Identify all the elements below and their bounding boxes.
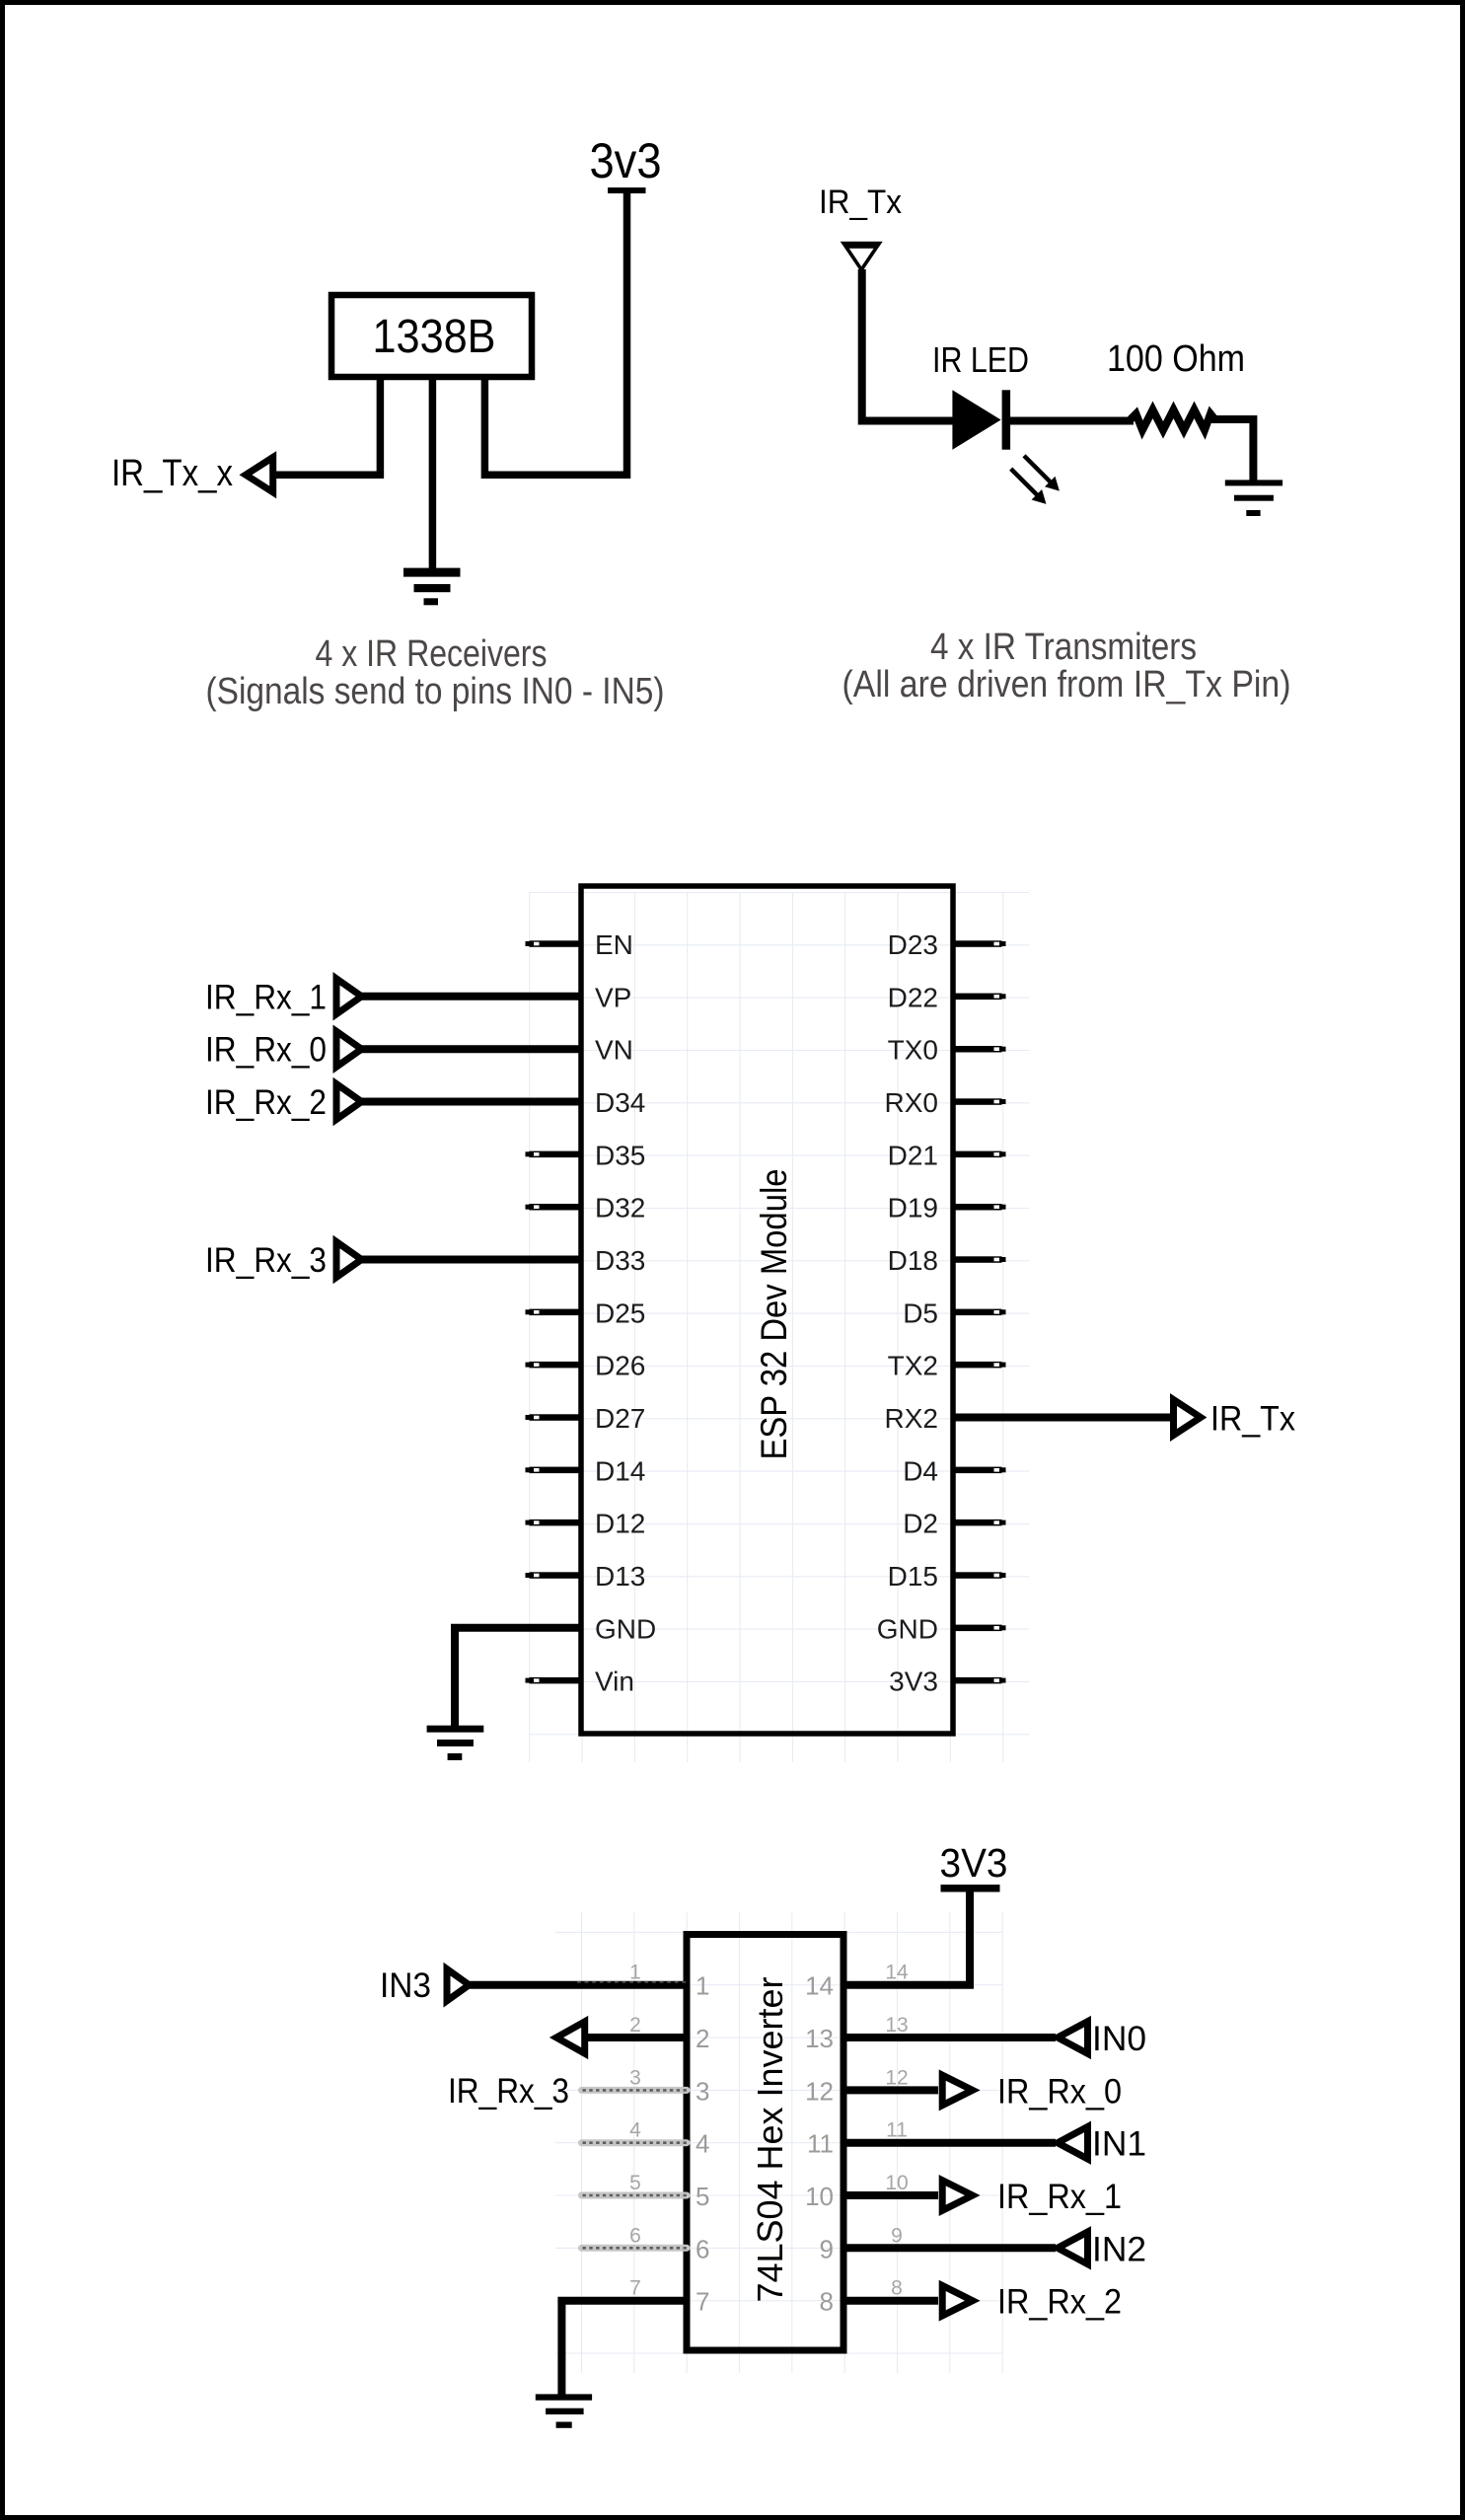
svg-text:VN: VN: [595, 1035, 633, 1066]
U2 left pin D26: [526, 1351, 646, 1381]
ground (inverter): [536, 2394, 592, 2427]
U2 right pin TX2: [888, 1351, 1006, 1381]
wire U2 GND to ground: [455, 1628, 581, 1727]
wire IR_Rx_1 to U2 pin VP: [360, 993, 581, 1001]
ground (receiver): [403, 568, 461, 606]
wire resistor to ground: [1211, 419, 1253, 482]
wire U3 pin9 to IN2: [843, 2244, 1056, 2252]
ground (ESP): [427, 1726, 484, 1760]
svg-text:D32: D32: [595, 1193, 645, 1223]
wire IR_Tx to LED anode: [862, 269, 954, 421]
U2 left pin D33: [595, 1245, 645, 1276]
wire receiver GND pin down: [429, 377, 437, 570]
U2 left pin VP: [595, 982, 631, 1012]
U2 left pin D12: [526, 1509, 646, 1539]
net label IR_Rx_2 (arrow): [205, 1083, 362, 1122]
IC U3 74LS04 Hex Inverter body: [687, 1935, 843, 2351]
U2 left pin GND: [595, 1613, 656, 1644]
wire LED cathode to resistor: [1009, 417, 1134, 425]
wire U3 pin10 to IR_Rx_1: [843, 2191, 938, 2199]
U3 pin 4 number: [629, 2119, 709, 2159]
svg-text:7: 7: [629, 2277, 641, 2300]
U2 left pin Vin: [526, 1667, 634, 1697]
U2 right pin RX2: [885, 1403, 938, 1434]
U2 left pin D25: [526, 1297, 646, 1328]
svg-text:10: 10: [805, 2182, 834, 2211]
wire U3 pin14 to 3V3: [843, 1890, 970, 1985]
wire IR_Rx_3 to U2 pin D33: [360, 1256, 581, 1264]
U3 pin 10 number: [805, 2172, 909, 2211]
power rail 3V3 (inverter): [940, 1840, 1008, 1892]
wire U3 pin11 to IN1: [843, 2139, 1056, 2147]
U2 right pin D21: [888, 1140, 1006, 1170]
wire U3 pin8 to IR_Rx_2: [843, 2297, 938, 2305]
svg-text:11: 11: [807, 2129, 834, 2159]
wire 3v3 rail to receiver Vcc pin: [484, 191, 626, 475]
svg-text:(All are driven from IR_Tx Pin: (All are driven from IR_Tx Pin): [842, 664, 1291, 705]
svg-text:3: 3: [629, 2066, 641, 2089]
svg-text:8: 8: [891, 2277, 903, 2300]
U3 pin 8 number: [820, 2277, 903, 2317]
svg-text:D23: D23: [888, 929, 938, 960]
svg-text:D34: D34: [595, 1087, 645, 1118]
svg-text:4 x IR Receivers: 4 x IR Receivers: [316, 633, 548, 675]
U2 right pin D22: [888, 982, 1006, 1012]
wire U3 pin12 to IR_Rx_0: [843, 2086, 938, 2094]
svg-text:D18: D18: [888, 1245, 938, 1276]
svg-text:4: 4: [696, 2129, 709, 2159]
svg-text:IR_Rx_3: IR_Rx_3: [205, 1241, 327, 1280]
wire receiver OUT pin to IR_Tx_x: [274, 377, 380, 475]
net label IR_Tx (antenna feed): [819, 184, 902, 273]
svg-text:D27: D27: [595, 1403, 645, 1434]
U2 right pin TX0: [888, 1035, 1006, 1066]
lead U3 pin5 (dotted): [582, 2192, 688, 2199]
U2 right pin D2: [903, 1509, 1005, 1539]
svg-text:IR_Rx_1: IR_Rx_1: [997, 2178, 1122, 2216]
U2 right pin D19: [888, 1193, 1006, 1223]
svg-text:5: 5: [696, 2182, 709, 2211]
svg-text:IN2: IN2: [1092, 2230, 1146, 2268]
lead U3 pin4 (dotted): [582, 2139, 688, 2146]
svg-text:VP: VP: [595, 982, 631, 1012]
svg-text:D2: D2: [903, 1509, 938, 1539]
net label IR_Tx_x (arrow left): [111, 453, 273, 494]
net label IN2 (arrow): [1058, 2230, 1146, 2268]
net label IR_Rx_3 (arrow): [205, 1241, 362, 1280]
U3 pin 5 number: [629, 2172, 709, 2211]
U2 right pin D23: [888, 929, 1006, 960]
svg-text:D35: D35: [595, 1140, 645, 1170]
svg-text:IR_Rx_0: IR_Rx_0: [997, 2072, 1122, 2111]
svg-text:IN3: IN3: [380, 1966, 431, 2005]
wire U3 pin13 to IN0: [843, 2034, 1056, 2041]
svg-text:TX0: TX0: [888, 1035, 938, 1066]
svg-text:GND: GND: [877, 1613, 938, 1644]
U2 left pin D34: [595, 1087, 645, 1118]
svg-text:D26: D26: [595, 1351, 645, 1381]
svg-text:3: 3: [696, 2076, 709, 2106]
svg-text:6: 6: [696, 2234, 709, 2263]
svg-text:D19: D19: [888, 1193, 938, 1223]
LED D1 (IR LED): [952, 390, 1060, 504]
svg-text:1: 1: [696, 1971, 709, 2001]
svg-text:D14: D14: [595, 1455, 645, 1486]
svg-text:12: 12: [885, 2066, 908, 2089]
net label IN1 (arrow): [1058, 2125, 1146, 2164]
svg-text:IN1: IN1: [1092, 2125, 1146, 2164]
svg-text:3V3: 3V3: [940, 1840, 1008, 1886]
U3 pin 12 number: [805, 2066, 909, 2106]
net label IR_Tx (output arrow): [1174, 1400, 1296, 1439]
U2 left pin D35: [526, 1140, 646, 1170]
svg-text:74LS04 Hex Inverter: 74LS04 Hex Inverter: [750, 1976, 790, 2302]
svg-text:IR_Rx_1: IR_Rx_1: [205, 978, 327, 1016]
power rail 3v3 (receiver): [590, 133, 662, 193]
svg-text:1338B: 1338B: [373, 311, 496, 363]
net label IR_Rx_2 (arrow): [942, 2283, 1122, 2322]
svg-text:RX2: RX2: [885, 1403, 938, 1434]
svg-text:ESP 32 Dev Module: ESP 32 Dev Module: [754, 1169, 794, 1460]
wire U2 RX2 to IR_Tx: [953, 1414, 1172, 1422]
svg-text:7: 7: [696, 2287, 709, 2317]
svg-text:IR_Tx_x: IR_Tx_x: [111, 453, 233, 494]
U2 left pin D27: [526, 1403, 646, 1434]
U2 right pin D5: [903, 1297, 1005, 1328]
svg-text:IR_Tx: IR_Tx: [819, 184, 902, 221]
svg-text:100 Ohm: 100 Ohm: [1107, 338, 1245, 380]
svg-text:D12: D12: [595, 1509, 645, 1539]
svg-text:IR_Tx: IR_Tx: [1210, 1400, 1295, 1439]
U3 pin 11 number: [807, 2119, 908, 2159]
wire U3 pin2 output: [586, 2034, 687, 2041]
svg-text:14: 14: [885, 1962, 909, 1984]
U3 pin 6 number: [629, 2224, 709, 2263]
svg-text:EN: EN: [595, 929, 633, 960]
svg-text:3V3: 3V3: [889, 1667, 938, 1697]
svg-text:D5: D5: [903, 1297, 938, 1328]
svg-text:4 x IR Transmiters: 4 x IR Transmiters: [930, 627, 1197, 668]
svg-text:D33: D33: [595, 1245, 645, 1276]
U2 left pin EN: [526, 929, 633, 960]
U3 pin 9 number: [820, 2224, 903, 2263]
svg-text:D25: D25: [595, 1297, 645, 1328]
svg-text:13: 13: [805, 2024, 834, 2053]
svg-text:5: 5: [629, 2172, 641, 2194]
U2 left pin D32: [526, 1193, 646, 1223]
svg-text:TX2: TX2: [888, 1351, 938, 1381]
svg-text:2: 2: [629, 2014, 641, 2037]
svg-text:IN0: IN0: [1092, 2020, 1146, 2058]
wire IN3 to U3 pin1: [470, 1981, 687, 1989]
IC U1 1338B IR receiver module: [331, 295, 532, 377]
svg-text:8: 8: [820, 2287, 834, 2317]
ground (transmitter): [1225, 480, 1282, 516]
svg-text:RX0: RX0: [885, 1087, 938, 1118]
net arrow pin2 (left): [556, 2022, 585, 2053]
U2 left pin VN: [595, 1035, 633, 1066]
U2 right pin D4: [903, 1455, 1005, 1486]
U2 left pin D14: [526, 1455, 646, 1486]
U2 right pin D18: [888, 1245, 1006, 1276]
U2 right pin GND: [877, 1613, 1006, 1644]
svg-text:9: 9: [891, 2224, 903, 2247]
svg-text:9: 9: [820, 2234, 834, 2263]
U2 right pin RX0: [885, 1087, 1006, 1118]
net label IN0 (arrow): [1058, 2020, 1146, 2058]
svg-text:1: 1: [629, 1962, 641, 1984]
svg-text:11: 11: [886, 2119, 908, 2142]
svg-text:GND: GND: [595, 1613, 656, 1644]
svg-text:D22: D22: [888, 982, 938, 1012]
svg-text:4: 4: [629, 2119, 641, 2142]
svg-text:IR_Rx_2: IR_Rx_2: [205, 1083, 327, 1122]
svg-text:10: 10: [885, 2172, 908, 2194]
net label IR_Rx_1 (arrow): [942, 2178, 1122, 2216]
U3 pin 14 number: [805, 1962, 909, 2001]
svg-text:3v3: 3v3: [590, 133, 662, 188]
lead U3 pin3 (dotted): [582, 2087, 688, 2094]
IC U2 ESP 32 Dev Module body: [581, 886, 953, 1734]
svg-text:D13: D13: [595, 1561, 645, 1592]
svg-text:6: 6: [629, 2224, 641, 2247]
U3 pin 7 number: [629, 2277, 709, 2317]
svg-text:14: 14: [805, 1971, 834, 2001]
U3 pin 3 number: [629, 2066, 709, 2106]
svg-text:13: 13: [885, 2014, 908, 2037]
net label IR_Rx_0 (arrow): [942, 2072, 1122, 2111]
svg-text:(Signals send to pins IN0 - IN: (Signals send to pins IN0 - IN5): [206, 671, 665, 712]
lead U3 pin1 (dotted overlay): [577, 1981, 687, 1983]
U2 left pin D13: [526, 1561, 646, 1592]
svg-text:D15: D15: [888, 1561, 938, 1592]
svg-text:IR LED: IR LED: [932, 339, 1029, 380]
U3 pin 1 number: [629, 1962, 709, 2001]
wire U3 pin7 to ground: [561, 2301, 687, 2396]
svg-text:12: 12: [805, 2076, 834, 2106]
svg-text:IR_Rx_3: IR_Rx_3: [448, 2072, 569, 2111]
net label IR_Rx_1 (arrow): [205, 978, 362, 1016]
resistor R1 100 Ohm zigzag: [1131, 409, 1215, 430]
net label IR_Rx_0 (arrow): [205, 1031, 362, 1070]
wire IR_Rx_0 to U2 pin VN: [360, 1045, 581, 1053]
U2 right pin D15: [888, 1561, 1006, 1592]
svg-text:Vin: Vin: [595, 1667, 634, 1697]
svg-text:D4: D4: [903, 1455, 938, 1486]
lead U3 pin6 (dotted): [582, 2245, 688, 2252]
U3 pin 2 number: [629, 2014, 709, 2053]
U2 right pin 3V3: [889, 1667, 1005, 1697]
svg-text:2: 2: [696, 2024, 709, 2053]
svg-text:D21: D21: [888, 1140, 938, 1170]
svg-text:IR_Rx_2: IR_Rx_2: [997, 2283, 1122, 2322]
wire IR_Rx_2 to U2 pin D34: [360, 1098, 581, 1106]
svg-text:IR_Rx_0: IR_Rx_0: [205, 1031, 327, 1070]
net label IN3 (arrow): [380, 1966, 470, 2005]
U3 pin 13 number: [805, 2014, 909, 2053]
